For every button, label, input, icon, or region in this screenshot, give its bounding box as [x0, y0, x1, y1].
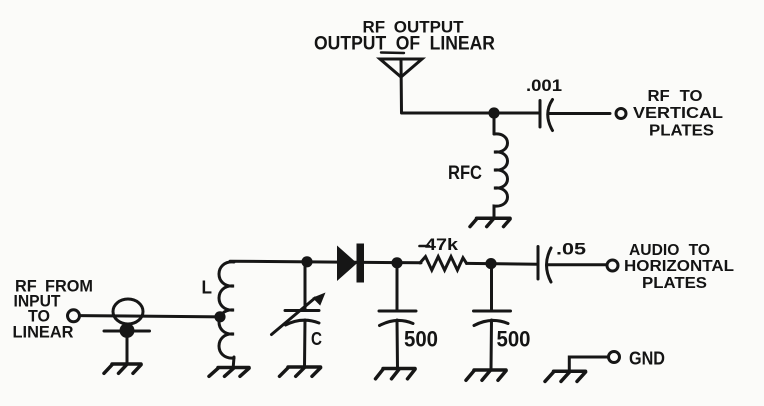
svg-text:LINEAR: LINEAR — [13, 323, 74, 342]
svg-text:500: 500 — [497, 327, 531, 352]
svg-text:OUTPUT OF LINEAR: OUTPUT OF LINEAR — [314, 34, 495, 55]
svg-text:PLATES: PLATES — [649, 123, 714, 140]
svg-text:VERTICAL: VERTICAL — [633, 105, 723, 122]
svg-text:.05: .05 — [556, 240, 586, 259]
svg-text:PLATES: PLATES — [642, 275, 707, 292]
svg-text:RF TO: RF TO — [648, 88, 703, 105]
svg-text:47k: 47k — [425, 235, 459, 254]
svg-text:GND: GND — [629, 349, 665, 369]
svg-text:HORIZONTAL: HORIZONTAL — [624, 258, 734, 275]
svg-text:L: L — [202, 277, 213, 298]
svg-text:RFC: RFC — [448, 163, 482, 184]
svg-text:.001: .001 — [526, 76, 562, 95]
svg-text:500: 500 — [404, 327, 438, 352]
svg-text:AUDIO TO: AUDIO TO — [629, 242, 710, 259]
svg-text:C: C — [311, 328, 322, 349]
